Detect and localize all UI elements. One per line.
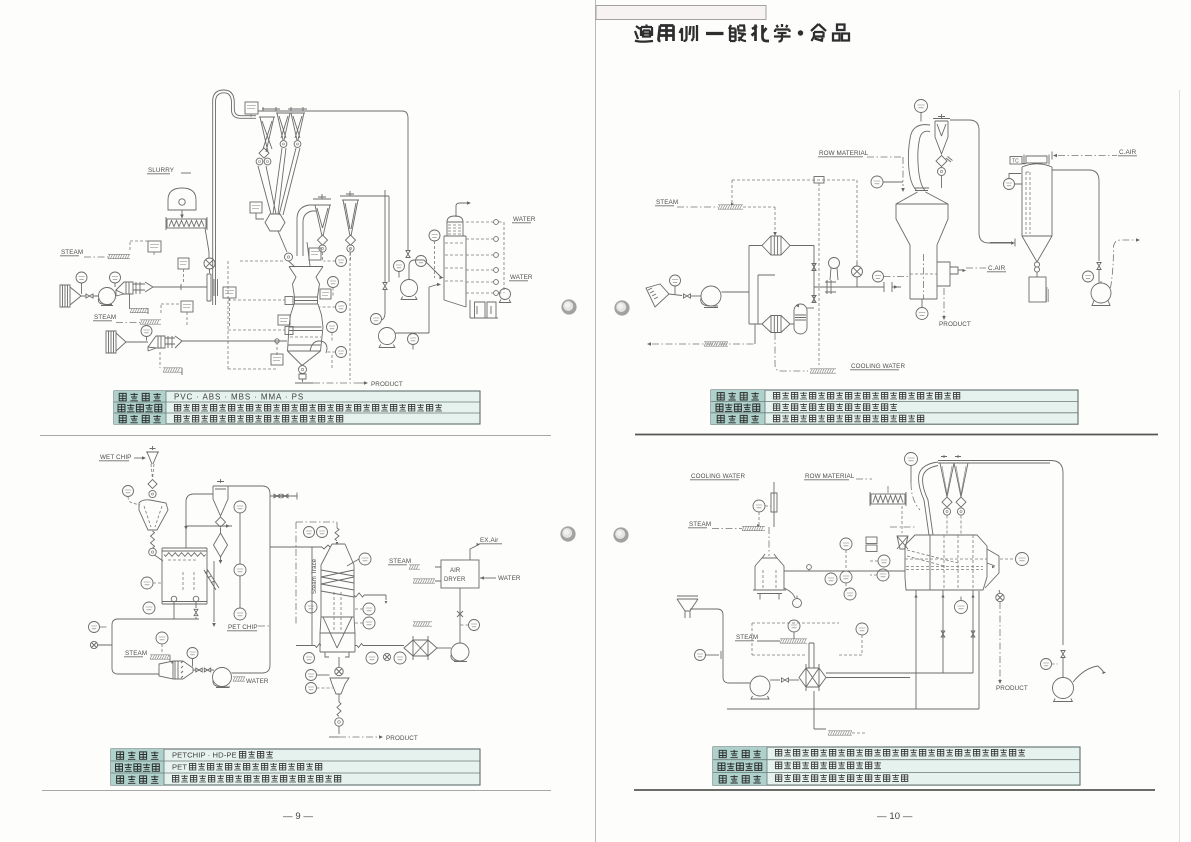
- PB gauge: [1041, 659, 1052, 670]
- control dashed loop top: [732, 180, 857, 266]
- steam trap: [718, 205, 743, 209]
- steam line to HX: [743, 207, 775, 231]
- dissolve tank: [753, 554, 786, 600]
- heater steam coil: [413, 622, 432, 626]
- PaB gauge: [429, 230, 440, 241]
- svg-text:PRODUCT: PRODUCT: [386, 735, 418, 742]
- discharge chutes to bin: [258, 148, 300, 215]
- scrubber chimney: [456, 203, 468, 217]
- table upper-left 処理品例/装置の特徴/主要装置: [114, 391, 480, 424]
- svg-text:STEAM: STEAM: [125, 650, 147, 657]
- TI gauge pump2: [408, 334, 419, 345]
- svg-text:STEAM: STEAM: [689, 521, 711, 528]
- feed inlet to column top: [289, 242, 311, 267]
- cooling water dash line: [775, 333, 808, 371]
- wc rotary: [149, 490, 156, 497]
- rule under upper-left table: [40, 435, 551, 437]
- PI gauge: [394, 261, 405, 272]
- spray nozzles and water lines: [494, 220, 499, 225]
- column bottom rotary valve: [299, 366, 307, 374]
- cyclone D2: [954, 455, 968, 497]
- title text 適用例 一般化学・食品 (pseudo-glyphs): [635, 24, 849, 42]
- recycle loop at column bottom: [310, 341, 327, 353]
- svg-text:WATER: WATER: [498, 575, 521, 582]
- top header line: [938, 461, 1063, 646]
- inlet funnel: [677, 596, 698, 618]
- fan: [437, 647, 451, 649]
- right discharge section: [985, 549, 999, 588]
- wc flapper: [148, 479, 157, 488]
- filter bags dashed: [1026, 172, 1030, 234]
- svg-text:STEAM: STEAM: [389, 558, 411, 565]
- blower discharge: [722, 291, 750, 293]
- purge line bottom left: [652, 343, 755, 345]
- downcomer into vessel: [186, 494, 213, 548]
- blower feed 1: [99, 288, 116, 305]
- tower bottom line right: [357, 644, 363, 648]
- instrument circles right of column: [336, 256, 347, 267]
- svg-text:ROW MATERIAL: ROW MATERIAL: [819, 150, 869, 157]
- cooling water sparger: [810, 369, 836, 373]
- svg-text:PRODUCT: PRODUCT: [371, 381, 403, 388]
- dash to tank: [768, 527, 770, 556]
- tower product discharge: [335, 667, 343, 675]
- pump valve: [1061, 651, 1065, 658]
- svg-text:PVC · ABS · MBS · MMA · PS: PVC · ABS · MBS · MMA · PS: [174, 392, 304, 401]
- filter rotary valves: [1034, 262, 1039, 267]
- packing band: [448, 225, 462, 234]
- table upper-right: [711, 390, 1078, 424]
- svg-text:SLURRY: SLURRY: [148, 167, 175, 174]
- product line: [295, 382, 313, 384]
- punch hole: [560, 526, 575, 541]
- instrument column: [234, 501, 246, 513]
- pulse header: [1022, 155, 1049, 165]
- filter inlet line: [990, 239, 1015, 247]
- TIC box 2: [181, 301, 193, 312]
- spray dryer chamber: [896, 192, 948, 299]
- rotary feeder flanges: [207, 274, 218, 301]
- dash-dot inlet left: [890, 526, 917, 528]
- bag filter TC box: [1010, 157, 1022, 165]
- label WATER: [233, 677, 245, 681]
- svg-text:AIR: AIR: [450, 568, 461, 574]
- inlet hopper with X: [897, 536, 908, 549]
- dryer inlet duct: [908, 125, 930, 191]
- TIR2 gauge: [955, 601, 968, 614]
- fluid bed dryer vessel: [905, 535, 987, 590]
- pump outlet: [770, 679, 780, 681]
- TIL4 gauge: [877, 569, 889, 581]
- right pump: [1053, 678, 1074, 699]
- feeder drop: [901, 506, 903, 533]
- rotameter bell: [829, 258, 840, 269]
- TICA X gauge: [143, 602, 155, 614]
- TRC box 1: [148, 241, 161, 252]
- flapper A: [317, 235, 327, 245]
- steam line: [712, 528, 742, 530]
- FI gauge: [306, 670, 317, 681]
- hx loop piping: [749, 246, 814, 325]
- vessel nozzles: [171, 596, 177, 602]
- svg-text:Steam Trace: Steam Trace: [312, 558, 318, 594]
- exhaust valve: [1097, 263, 1101, 270]
- steam trap: [150, 655, 170, 659]
- svg-text:PETCHIP · HD-PE: PETCHIP · HD-PE: [172, 750, 237, 759]
- downcomer to pump2: [382, 190, 385, 320]
- svg-text:WATER: WATER: [513, 216, 536, 223]
- steam trap 1: [108, 254, 130, 258]
- column bed dashed: [290, 336, 321, 338]
- hx outlet: [826, 673, 910, 678]
- chute into crystallizer: [155, 555, 164, 561]
- inline valve box: [814, 177, 824, 184]
- instrument box TR: [245, 102, 258, 114]
- TI gauge: [416, 256, 427, 267]
- svg-text:EX.Air: EX.Air: [480, 537, 498, 544]
- svg-text:ROW MATERIAL: ROW MATERIAL: [805, 473, 855, 480]
- riser pipe: [213, 90, 256, 305]
- RIC gauge: [840, 571, 852, 583]
- feed blower: [701, 286, 721, 306]
- crystallizer vessel: [162, 548, 207, 604]
- PI gauge 1: [76, 272, 87, 283]
- air heater HX: [404, 636, 437, 660]
- valve top: [406, 251, 410, 258]
- cyclone header line: [258, 107, 408, 250]
- rotary valve C3: [294, 141, 301, 148]
- svg-text:PRODUCT: PRODUCT: [996, 685, 1028, 692]
- slurry feed dome: [168, 188, 196, 210]
- orifice flange: [825, 280, 836, 294]
- bin discharge line: [278, 231, 287, 252]
- row material dash line: [867, 157, 903, 186]
- exhaust fan: [1091, 283, 1111, 303]
- steam line 2: [116, 322, 140, 324]
- FI gauge: [825, 573, 837, 585]
- svg-text:C.AIR: C.AIR: [988, 265, 1006, 272]
- cyclone C3: [290, 113, 305, 140]
- product line: [329, 736, 339, 738]
- PI4 gauge: [304, 653, 315, 664]
- control dash lines: [228, 248, 350, 380]
- funnel pipe: [690, 609, 750, 683]
- exhaust duct curve: [919, 462, 938, 535]
- mixer valve circle: [204, 258, 215, 269]
- feed line train2 to column: [182, 340, 287, 342]
- C.AIR jacket box: [937, 262, 964, 286]
- feed pump: [750, 676, 770, 696]
- wet chip cyclone: [146, 446, 159, 464]
- chamber interior dashes: [910, 273, 937, 275]
- FI gauge: [670, 275, 681, 286]
- flappers D: [942, 497, 952, 507]
- PET tower: [320, 544, 355, 657]
- EX.Air: [470, 545, 478, 560]
- vessel bottom pipes: [916, 590, 973, 709]
- fan to air dryer: [459, 588, 461, 643]
- feed hopper 2: [106, 331, 126, 353]
- TICA gauge: [156, 632, 168, 644]
- TI1 gauge: [89, 622, 100, 633]
- PI gauge pump2: [371, 314, 382, 325]
- svg-text:COOLING WATER: COOLING WATER: [851, 363, 905, 370]
- loop valves: [812, 264, 816, 271]
- feed hopper: [646, 284, 669, 307]
- cyclone C2: [276, 113, 291, 140]
- svg-text:WET CHIP: WET CHIP: [100, 454, 131, 461]
- duct cyclone to filter: [950, 120, 1012, 243]
- bottom collect lines: [727, 591, 979, 709]
- valve 1: [86, 294, 93, 298]
- rotary valve bin: [285, 253, 293, 261]
- PI box: [178, 258, 189, 269]
- table lower-left: [111, 749, 480, 785]
- TR gauge: [878, 555, 890, 567]
- vent line with valves: [270, 495, 297, 497]
- hopper spring: [151, 531, 155, 548]
- steam trap 2: [140, 320, 161, 324]
- rule under lower-left table: [42, 790, 551, 792]
- Pd gauge: [840, 538, 852, 550]
- fan outlet: [1111, 240, 1137, 288]
- pump 2: [379, 328, 396, 345]
- steam sparger: [780, 639, 807, 643]
- PI gauge: [187, 648, 198, 659]
- dome outlet: [181, 210, 183, 218]
- recirculation pump 1: [401, 280, 418, 297]
- AIR DRYER box: [441, 560, 479, 588]
- page divider line: [595, 0, 597, 842]
- TICA bottom gauges: [366, 652, 378, 664]
- TIL gauge below: [916, 308, 928, 320]
- exhaust pipe from filter: [1052, 170, 1099, 261]
- svg-text:PRODUCT: PRODUCT: [939, 321, 971, 328]
- PI gauge: [469, 620, 480, 631]
- svg-text:STEAM: STEAM: [61, 249, 83, 256]
- cyc2 flapper: [215, 517, 225, 527]
- pump2 outlet: [396, 284, 440, 333]
- svg-text:DRYER: DRYER: [444, 577, 466, 583]
- neck flange: [914, 188, 929, 191]
- punch hole: [613, 527, 628, 542]
- cyclone rotary: [938, 168, 946, 176]
- flapper B: [345, 235, 355, 245]
- svg-text:COOLING WATER: COOLING WATER: [691, 473, 745, 480]
- FI3 gauge: [871, 176, 883, 188]
- cyc2 egg valve: [214, 528, 228, 557]
- top cyclone: [933, 114, 950, 154]
- TIC gauge top: [905, 453, 918, 466]
- tank drain valve: [784, 588, 795, 598]
- PICA gauge: [753, 500, 765, 512]
- ejector valves: [196, 668, 202, 672]
- product valve: [996, 593, 1004, 601]
- rotary B: [347, 245, 354, 252]
- rule under lower-right table: [634, 789, 1155, 791]
- row material dash: [856, 478, 872, 480]
- table lower-right: [713, 747, 1080, 785]
- exhaust duct to cyclone A: [297, 205, 316, 256]
- crossing line: [186, 525, 232, 527]
- loop top cyclone 2: [213, 479, 228, 516]
- FI2 gauge: [873, 271, 884, 282]
- svg-text:PET: PET: [172, 762, 187, 771]
- tower sump: [470, 300, 498, 318]
- hopper outlet line: [669, 294, 682, 296]
- vessel internals: [929, 535, 931, 590]
- rotary valves C1: [256, 158, 263, 165]
- LAH gauge: [359, 553, 371, 565]
- product dash line: [943, 288, 945, 316]
- svg-text:STEAM: STEAM: [656, 199, 678, 206]
- tower bottom line left: [315, 644, 321, 648]
- svg-text:STEAM: STEAM: [94, 314, 116, 321]
- punch hole: [561, 299, 576, 314]
- TRC box 2: [223, 287, 236, 298]
- PI gauge 3: [141, 326, 152, 337]
- chute to mixer: [205, 228, 209, 258]
- Pd2 gauge: [1004, 179, 1015, 190]
- TIR3 gauge: [1016, 553, 1029, 566]
- svg-text:WATER: WATER: [246, 678, 269, 685]
- screw conveyor: [167, 219, 206, 228]
- TICA gauge: [788, 620, 800, 632]
- tower feed line: [270, 546, 322, 548]
- cyclone D1: [940, 455, 954, 497]
- steam line 1: [84, 256, 108, 258]
- drying column: [288, 267, 324, 366]
- DI gauge: [305, 601, 317, 613]
- TICA gauge top: [317, 527, 328, 538]
- cyclone B: [340, 191, 360, 236]
- main air line: [814, 286, 901, 288]
- water pump: [500, 289, 511, 300]
- PI gauge 2: [110, 272, 121, 283]
- pump outlet curve: [1073, 666, 1103, 682]
- product dash line: [999, 602, 1001, 680]
- valve 2: [383, 283, 387, 290]
- collect line and loop left: [112, 619, 199, 674]
- svg-text:C.AIR: C.AIR: [1119, 149, 1137, 156]
- cyclone flapper: [936, 155, 947, 166]
- dashed level line: [240, 260, 285, 262]
- inclined discharge screen: [204, 569, 219, 590]
- feed valve: [684, 294, 691, 298]
- buffer capsule: [794, 304, 807, 334]
- heat exchanger: [799, 664, 826, 691]
- feed hopper 1: [60, 285, 81, 307]
- TIL gauge: [844, 588, 856, 600]
- cyclone A: [313, 194, 331, 236]
- mixer tee circle: [852, 266, 863, 277]
- feed line 1 to riser: [153, 284, 207, 290]
- svg-text:WATER: WATER: [510, 274, 533, 281]
- feed hopper: [139, 500, 168, 530]
- bag filter body: [1022, 164, 1052, 262]
- PI gauge top: [304, 527, 315, 538]
- C.AIR dashed line: [966, 267, 986, 269]
- ejector 1: [116, 282, 153, 296]
- heat exchanger lower: [762, 316, 790, 333]
- PI4 gauge: [1083, 271, 1094, 282]
- T1 gauge: [695, 650, 706, 661]
- drain valve circle: [90, 641, 97, 648]
- product rotary 2: [335, 718, 343, 726]
- left feed vertical: [311, 547, 313, 645]
- rotaries D: [943, 508, 950, 515]
- dashed discharge lines A B: [323, 252, 351, 262]
- instrument boxes left of column: [309, 248, 321, 260]
- steam trace drop 1: [129, 294, 131, 309]
- cooling column: [771, 482, 777, 527]
- line hopper2-ejector: [126, 341, 148, 343]
- punch hole: [614, 300, 629, 315]
- coil steam connection: [354, 593, 364, 597]
- tower coil lines: [321, 570, 354, 597]
- valve X: [457, 611, 463, 617]
- svg-text:— 10 —: — 10 —: [877, 811, 913, 822]
- rule under upper-right table: [635, 434, 1158, 436]
- rotary valve C2: [280, 141, 287, 148]
- hopper rotary: [149, 548, 157, 556]
- tower internals dashed: [445, 243, 465, 281]
- TAH gauge: [306, 683, 317, 694]
- pet chip discharge: [213, 561, 215, 622]
- screw feeder: [871, 494, 905, 504]
- TI gauge: [123, 486, 134, 497]
- svg-text:STEAM: STEAM: [736, 634, 758, 641]
- sparger drop pipes: [809, 643, 814, 668]
- right page edge shadow: [1179, 90, 1181, 842]
- svg-text:PET CHIP: PET CHIP: [228, 624, 258, 631]
- c.air dash line: [1058, 155, 1117, 157]
- TICA1 gauge: [141, 577, 153, 589]
- heat exchanger upper: [762, 236, 790, 255]
- drain line: [814, 691, 826, 729]
- FIC gauge: [856, 623, 868, 635]
- inner loop line: [758, 275, 775, 324]
- svg-text:TC: TC: [1012, 159, 1019, 165]
- collection bin: [1029, 277, 1046, 302]
- hopper bin (hexagon): [265, 214, 285, 231]
- loop right riser: [225, 486, 270, 673]
- TICA right gauges: [363, 603, 375, 615]
- rotary A: [319, 245, 326, 252]
- tower top dash-dot: [296, 522, 337, 528]
- svg-text:— 9 —: — 9 —: [283, 811, 313, 822]
- TR boxes: [866, 537, 877, 544]
- steam jet ejector: [159, 661, 193, 679]
- scrubber tower: [444, 216, 466, 307]
- ejector 2: [148, 336, 182, 351]
- steam trace below 2: [159, 352, 161, 368]
- steam dash-dot line: [677, 206, 718, 208]
- TIC top gauge: [915, 100, 928, 113]
- cyclone B header to downpipe: [360, 196, 389, 282]
- vacuum blower: [213, 668, 232, 687]
- product hopper: [330, 678, 349, 694]
- main feed line: [784, 570, 905, 572]
- LAH box: [250, 202, 262, 213]
- cyclone C1: [259, 117, 275, 152]
- title frame box: [596, 6, 766, 20]
- left dash rect: [295, 522, 297, 626]
- flapper valve C1: [259, 148, 269, 158]
